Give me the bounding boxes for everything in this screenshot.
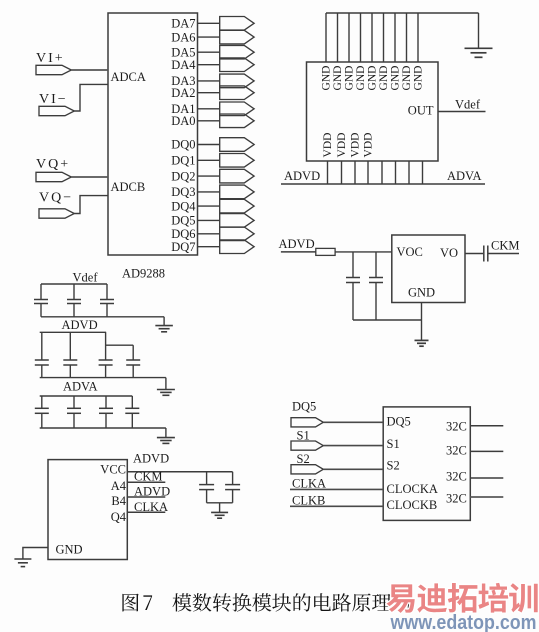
ground (U3) (415, 339, 429, 341)
pin VDD2 wire (341, 161, 343, 184)
connector DA1 (220, 102, 254, 116)
svg-text:GND: GND (355, 66, 367, 91)
wire ADVD (B4) (127, 496, 165, 498)
capacitor C16 (105, 332, 107, 360)
wire S1 (323, 445, 383, 447)
svg-text:CLKA: CLKA (292, 476, 326, 490)
wire cap bottom rail (353, 319, 422, 321)
svg-text:DA2: DA2 (171, 86, 195, 100)
wire 32C #3 (470, 477, 503, 479)
top GND rail (326, 12, 479, 14)
bank2 bottom rail (40, 377, 166, 379)
wire 32C #1 (470, 425, 503, 427)
ground (U4) (14, 558, 31, 560)
connector DQ7 (220, 240, 254, 254)
svg-text:32C: 32C (446, 419, 467, 433)
svg-text:AD9288: AD9288 (122, 267, 165, 281)
connector DQ0 (220, 138, 254, 152)
connector DQ1 (220, 154, 254, 168)
connector DQ5 (291, 418, 323, 427)
bank3 bottom rail (40, 427, 166, 429)
capacitor C17 (132, 345, 134, 360)
ADC IC U1 AD9288 body (108, 13, 198, 255)
svg-text:VO: VO (440, 246, 458, 260)
connector DA2 (220, 86, 254, 100)
connector VI+ (36, 65, 71, 74)
capacitor C12 (73, 284, 75, 300)
wire VI+ (71, 69, 108, 71)
wire OUT to Vdef (438, 111, 486, 113)
svg-text:B4: B4 (111, 494, 126, 508)
capacitor C18 (41, 396, 43, 408)
svg-text:A4: A4 (111, 479, 127, 493)
wire CLKA (U4) (127, 511, 165, 513)
connector DQ6 (220, 227, 254, 241)
svg-text:CLOCKA: CLOCKA (387, 482, 438, 496)
wire DQ0 (198, 144, 220, 146)
svg-text:S2: S2 (387, 458, 400, 472)
svg-text:GND: GND (344, 66, 356, 91)
wire DQ6 (198, 233, 220, 235)
regulator U3 body (392, 235, 465, 303)
wire VI- (74, 84, 108, 111)
wire VQ+ (71, 176, 108, 178)
ground (bank2) (157, 389, 175, 391)
svg-text:VDD: VDD (363, 133, 375, 158)
svg-text:VI−: VI− (39, 92, 68, 107)
connector DA0 (220, 114, 254, 128)
svg-text:S2: S2 (297, 452, 310, 466)
svg-text:VDD: VDD (322, 133, 334, 158)
svg-text:CKM: CKM (491, 239, 519, 253)
connector DA6 (220, 30, 254, 44)
capacitor C15 (69, 332, 71, 360)
pin ADVA4 wire (422, 161, 424, 184)
svg-text:CLOCKB: CLOCKB (387, 498, 438, 512)
connector DA7 (220, 17, 254, 31)
svg-text:VDD: VDD (336, 133, 348, 158)
wire DA7 (198, 22, 220, 24)
svg-text:32C: 32C (446, 444, 467, 458)
svg-text:32C: 32C (446, 469, 467, 483)
pin ADVA1 wire (381, 161, 383, 184)
connector DA4 (220, 58, 254, 72)
wire DA5 (198, 51, 220, 53)
IC U5 body (383, 407, 470, 521)
wire VQ- (74, 196, 108, 214)
svg-text:ADVD: ADVD (279, 237, 315, 251)
wire R1 to VOC (335, 251, 392, 253)
bank2 branch rail (106, 344, 134, 346)
ADVD/ADVA supply rail (281, 183, 485, 185)
svg-text:DA0: DA0 (171, 114, 195, 128)
wire DA0 (198, 120, 220, 122)
capacitor C22 (206, 472, 208, 485)
pin GND6 wire (383, 13, 385, 62)
bank3 top rail (40, 395, 133, 397)
wire CLKA (290, 488, 383, 490)
svg-text:DQ5: DQ5 (387, 414, 411, 428)
wire CLKB (290, 505, 383, 507)
pin VDD1 wire (327, 161, 329, 184)
svg-text:DQ0: DQ0 (171, 138, 195, 152)
bank2 top rail (40, 331, 106, 333)
pin ADVA2 wire (395, 161, 397, 184)
pin GND9 wire (417, 13, 419, 62)
connector DQ2 (220, 169, 254, 183)
wire GND stem (421, 303, 423, 341)
wire DA2 (198, 92, 220, 94)
svg-text:DQ1: DQ1 (171, 154, 195, 168)
connector DQ4 (220, 199, 254, 213)
connector VQ+ (36, 172, 71, 181)
capacitor C23 (232, 472, 234, 485)
bank1 top rail (41, 283, 107, 285)
svg-text:32C: 32C (446, 491, 467, 505)
wire GND (U4) (23, 548, 48, 559)
wire VO out (465, 253, 483, 255)
svg-text:S1: S1 (387, 437, 400, 451)
svg-text:Q4: Q4 (111, 510, 127, 524)
ground (bank3) (157, 437, 175, 439)
svg-text:DA7: DA7 (171, 17, 195, 31)
svg-text:DA6: DA6 (171, 30, 195, 44)
wire DQ4 (198, 205, 220, 207)
bank2 ground stem (165, 378, 167, 390)
capacitor C21 (131, 396, 133, 408)
connector VQ- (39, 209, 74, 218)
wire 32C #4 (470, 496, 503, 498)
svg-text:Vdef: Vdef (455, 98, 481, 112)
resistor R1 (316, 248, 335, 255)
pin GND8 wire (406, 13, 408, 62)
svg-text:VQ+: VQ+ (36, 157, 70, 172)
pin VDD4 wire (367, 161, 369, 184)
bank3 ground stem (165, 428, 167, 437)
wire ADVD to R1 (281, 251, 316, 253)
caption 图7 (figure number) (122, 594, 138, 612)
svg-text:Vdef: Vdef (73, 271, 99, 285)
capacitor C19 (73, 396, 75, 408)
capacitor C11 (40, 284, 42, 300)
svg-text:DQ7: DQ7 (171, 240, 195, 254)
wire DQ1 (198, 159, 220, 161)
wire S2 (323, 468, 383, 470)
wire DQ2 (198, 175, 220, 177)
svg-text:GND: GND (408, 286, 435, 300)
pin VDD3 wire (354, 161, 356, 184)
pin GND7 wire (394, 13, 396, 62)
svg-text:ADCA: ADCA (111, 70, 146, 84)
IC U2 reference body (307, 62, 439, 161)
pin GND3 wire (348, 13, 350, 62)
svg-text:ADVD: ADVD (284, 169, 320, 183)
svg-text:DQ6: DQ6 (171, 227, 195, 241)
wire C22/C23 bottom rail (207, 502, 233, 504)
connector DQ3 (220, 185, 254, 199)
connector DA3 (220, 74, 254, 88)
wire DQ5 (198, 219, 220, 221)
ground stem (U4 caps) (219, 503, 221, 512)
ground (top right) (465, 47, 493, 49)
wire CKM (127, 481, 165, 483)
connector DA5 (220, 45, 254, 59)
svg-text:DA4: DA4 (171, 58, 196, 72)
wire VCC/ADVD (127, 471, 232, 473)
svg-text:DQ5: DQ5 (292, 400, 316, 414)
bank1 bottom rail (41, 316, 164, 318)
svg-text:ADVA: ADVA (447, 169, 482, 183)
svg-text:GND: GND (332, 66, 344, 91)
svg-text:ADVD: ADVD (62, 318, 98, 332)
caption text 模数转换模块的电路原理图 (173, 593, 192, 611)
pin GND4 wire (360, 13, 362, 62)
capacitor C7 (series) (483, 246, 485, 262)
svg-text:VCC: VCC (100, 463, 126, 477)
wire DA3 (198, 80, 220, 82)
capacitor C6 (375, 252, 377, 278)
capacitor C14 (41, 332, 43, 360)
svg-text:OUT: OUT (408, 104, 434, 118)
watermark 易迪拓培训 (387, 584, 415, 613)
wire DA1 (198, 108, 220, 110)
wire to ground (478, 13, 480, 48)
svg-text:VDD: VDD (350, 133, 362, 158)
svg-text:VOC: VOC (397, 245, 423, 259)
svg-text:GND: GND (390, 66, 402, 91)
svg-text:VQ−: VQ− (39, 191, 73, 206)
wire DA4 (198, 64, 220, 66)
svg-text:www.edatop.com: www.edatop.com (390, 611, 537, 632)
ground (U4 caps) (211, 511, 228, 513)
svg-text:GND: GND (401, 66, 413, 91)
capacitor C20 (105, 396, 107, 408)
wire DQ3 (198, 191, 220, 193)
svg-text:VI+: VI+ (36, 51, 65, 66)
wire DQ5 (323, 421, 383, 423)
wire DQ7 (198, 246, 220, 248)
connector DQ5 (220, 214, 254, 228)
svg-text:GND: GND (56, 543, 83, 557)
wire 32C #2 (470, 450, 503, 452)
svg-text:DQ3: DQ3 (171, 185, 195, 199)
bank1 ground stem (163, 317, 165, 326)
pin ADVA3 wire (408, 161, 410, 184)
connector VI- (39, 106, 74, 115)
svg-text:DQ4: DQ4 (171, 199, 196, 213)
pin GND5 wire (371, 13, 373, 62)
wire DA6 (198, 36, 220, 38)
svg-text:GND: GND (321, 66, 333, 91)
svg-text:GND: GND (367, 66, 379, 91)
wire C7 to CKM (488, 253, 519, 255)
svg-text:DQ5: DQ5 (171, 214, 195, 228)
ground (bank1) (155, 325, 173, 327)
svg-text:ADVD: ADVD (133, 452, 169, 466)
pin GND1 wire (325, 13, 327, 62)
connector S1 (291, 441, 323, 450)
svg-text:ADVA: ADVA (63, 380, 98, 394)
svg-text:ADCB: ADCB (111, 180, 146, 194)
svg-text:GND: GND (413, 66, 425, 91)
connector S2 (291, 465, 323, 474)
svg-text:GND: GND (378, 66, 390, 91)
svg-text:DQ2: DQ2 (171, 169, 195, 183)
pin GND2 wire (337, 13, 339, 62)
capacitor C5 (352, 252, 354, 278)
IC U4 body (48, 460, 127, 560)
capacitor C13 (106, 284, 108, 300)
